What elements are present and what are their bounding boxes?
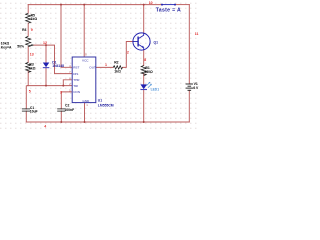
junction dots bbox=[45, 4, 145, 123]
wire collector to rail bbox=[143, 5, 145, 34]
svg-text:LM555CM: LM555CM bbox=[98, 104, 114, 108]
battery V1 bbox=[186, 84, 193, 90]
svg-text:RST: RST bbox=[73, 66, 79, 70]
svg-text:C2: C2 bbox=[65, 104, 69, 108]
svg-text:10uF: 10uF bbox=[30, 110, 38, 114]
svg-text:8: 8 bbox=[144, 58, 146, 62]
node rail-C2 bbox=[60, 121, 62, 123]
wire top rail right bbox=[175, 4, 189, 6]
svg-text:100nF: 100nF bbox=[64, 108, 74, 112]
svg-text:R2: R2 bbox=[114, 61, 118, 65]
wire R3 to node5 T bbox=[27, 71, 28, 86]
wire battery bottom to rail bbox=[188, 90, 190, 122]
svg-text:10: 10 bbox=[149, 1, 153, 5]
svg-text:U1: U1 bbox=[98, 98, 102, 102]
transistor Q1 bbox=[133, 33, 150, 50]
svg-text:Taste = A: Taste = A bbox=[156, 8, 181, 14]
svg-text:THR: THR bbox=[73, 78, 80, 82]
svg-text:TRI: TRI bbox=[73, 84, 78, 88]
svg-text:Q1: Q1 bbox=[154, 41, 159, 45]
resistor R1 bbox=[141, 66, 146, 76]
svg-text:1: 1 bbox=[105, 63, 107, 67]
svg-text:5: 5 bbox=[29, 90, 31, 94]
wire GND to bottom rail bbox=[84, 103, 86, 122]
svg-text:12: 12 bbox=[43, 41, 47, 45]
svg-text:Key=A: Key=A bbox=[1, 46, 12, 50]
svg-text:6 V: 6 V bbox=[193, 86, 199, 90]
net labels bbox=[29, 1, 199, 128]
node rail-RST bbox=[60, 4, 62, 6]
svg-text:OUT: OUT bbox=[89, 66, 96, 70]
svg-text:DIS: DIS bbox=[73, 72, 78, 76]
node TRI-D1 bbox=[45, 85, 47, 87]
wire OUT to R2 bbox=[96, 66, 113, 68]
node rail-collector bbox=[143, 4, 145, 6]
resistor R2 bbox=[113, 66, 122, 69]
svg-text:GND: GND bbox=[82, 99, 90, 103]
wire top rail left bbox=[28, 4, 162, 6]
node rail-LED bbox=[143, 121, 145, 123]
diode D1 bbox=[43, 63, 50, 68]
node rail-GND bbox=[84, 121, 86, 123]
wire wiper to DIS bbox=[34, 45, 73, 74]
svg-text:9: 9 bbox=[31, 28, 33, 32]
wire R4 to R3 node 13 bbox=[27, 47, 29, 63]
svg-text:LED1: LED1 bbox=[151, 88, 160, 92]
capacitor C2 bbox=[57, 109, 65, 111]
svg-text:1kΩ: 1kΩ bbox=[114, 70, 121, 74]
node TRI-THR bbox=[62, 85, 64, 87]
svg-text:3: 3 bbox=[60, 91, 62, 95]
potentiometer R4 bbox=[26, 36, 31, 47]
wire bottom rail bbox=[26, 121, 189, 123]
node wiper-D1 bbox=[45, 44, 47, 46]
svg-text:1N4148: 1N4148 bbox=[52, 64, 64, 68]
wire emitter to R1 bbox=[143, 50, 145, 66]
resistor R3 bbox=[26, 62, 31, 72]
wire THR jog bbox=[63, 80, 72, 86]
svg-text:VCC: VCC bbox=[82, 59, 89, 63]
wire TRI from T to IC bbox=[27, 85, 72, 87]
svg-text:50%: 50% bbox=[17, 44, 24, 48]
wire D1 anode bbox=[45, 45, 47, 62]
svg-text:R4: R4 bbox=[22, 28, 26, 32]
wire R1 to LED bbox=[143, 74, 145, 85]
wire RST from rail bbox=[61, 5, 72, 68]
capacitor C1 bbox=[22, 109, 30, 111]
wire node5 to C1 bbox=[25, 86, 27, 109]
svg-text:13: 13 bbox=[30, 52, 34, 56]
svg-text:4: 4 bbox=[44, 124, 46, 128]
wire D1 cathode to TRI bbox=[45, 68, 47, 86]
wire R2 to Q1 base bbox=[122, 42, 133, 68]
wire R5 to R4 bbox=[27, 23, 29, 36]
switch S1 Taste=A bbox=[162, 4, 175, 6]
IC U1 LM555CM 555 timer bbox=[72, 57, 96, 103]
wire CON to C2 bbox=[61, 92, 72, 109]
wire right drop to battery bbox=[188, 5, 190, 84]
svg-text:380Ω: 380Ω bbox=[144, 70, 153, 74]
svg-text:11: 11 bbox=[195, 32, 199, 36]
svg-text:CON: CON bbox=[73, 90, 80, 94]
node rail-VCC bbox=[83, 4, 85, 6]
LED1 bbox=[140, 84, 147, 89]
wire VCC from rail bbox=[83, 5, 85, 57]
svg-text:1kΩ: 1kΩ bbox=[31, 17, 38, 21]
resistor R5 bbox=[26, 13, 31, 23]
wire left column rail to R5 bbox=[27, 5, 29, 14]
svg-text:1kΩ: 1kΩ bbox=[29, 66, 36, 70]
wire LED to bottom rail bbox=[143, 90, 145, 122]
wire C2 to bottom rail bbox=[60, 111, 62, 122]
wire C1 to bottom rail bbox=[25, 111, 27, 122]
svg-text:2: 2 bbox=[127, 51, 129, 55]
